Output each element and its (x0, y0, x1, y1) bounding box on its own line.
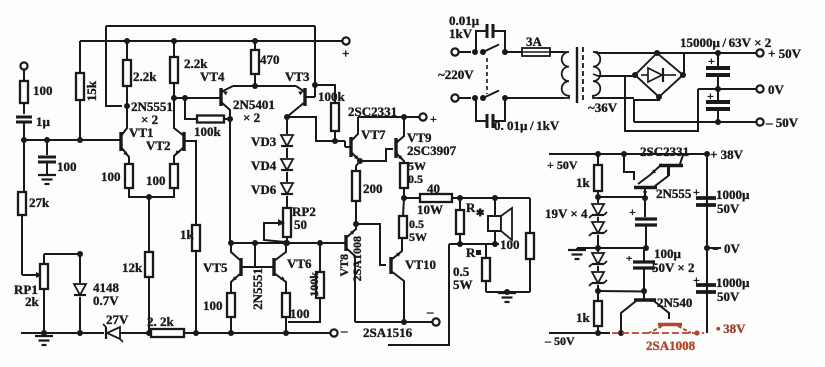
svg-text:✱: ✱ (476, 208, 485, 219)
capacitor 100 (input shunt) (38, 140, 77, 174)
svg-text:100k: 100k (318, 89, 346, 104)
svg-text:2SA1008: 2SA1008 (646, 338, 696, 353)
svg-text:5W: 5W (453, 277, 473, 292)
label +50V (regulator) (547, 158, 578, 172)
zener Z1 (589, 197, 607, 221)
wire zobel bottom (486, 291, 530, 293)
node dot (715, 86, 721, 92)
wire 0V stub (707, 241, 741, 256)
ground (input filter) (38, 175, 56, 184)
zener Z3 (589, 248, 607, 271)
transformer core (577, 47, 583, 103)
diode VD3 (251, 117, 293, 149)
wire regulator + rail (549, 153, 707, 155)
ground (RP1) (35, 336, 53, 345)
node dot VT1 collector (124, 103, 130, 109)
wire VT3 base to outer rail (312, 82, 318, 97)
transistor VT7 (345, 117, 386, 161)
node dot (492, 241, 498, 247)
label 2N5551 (VT5 VT6) (250, 268, 265, 310)
transistor VT10 (391, 238, 436, 322)
resistor 200 (352, 161, 383, 224)
node dot RP1 bottom rail (41, 330, 47, 336)
svg-text:2.2k: 2.2k (133, 69, 157, 84)
svg-text:2. 2k: 2. 2k (147, 314, 175, 329)
wire chain top link (287, 117, 345, 141)
svg-text:100: 100 (290, 306, 310, 321)
svg-text:+ 50V: + 50V (768, 46, 802, 61)
svg-text:1000μ: 1000μ (716, 187, 750, 202)
wire output V+ bus (358, 116, 420, 118)
node dot (642, 195, 648, 201)
resistor 0.5 5W (VT9 emitter) (400, 159, 426, 198)
wire (550, 51, 564, 53)
svg-text:VT8: VT8 (337, 254, 351, 277)
svg-text:+: + (430, 112, 437, 126)
wire bias bus (230, 242, 340, 244)
svg-text:2N540: 2N540 (657, 295, 692, 310)
mains terminal upper (451, 48, 471, 55)
svg-text:100: 100 (33, 83, 53, 98)
wire VT7 base (344, 141, 346, 147)
transistor VT2 (146, 98, 197, 164)
svg-text:× 2: × 2 (243, 110, 260, 125)
node dot (715, 50, 721, 56)
node dot 100k bottom (332, 138, 338, 144)
wire rail V- supply (21, 332, 104, 334)
svg-text:15000μ / 63V × 2: 15000μ / 63V × 2 (680, 35, 771, 50)
label 2SC2331 (pass) (640, 144, 689, 159)
diode 4148 0.7V (74, 254, 120, 336)
bridge rectifier D (632, 50, 686, 100)
svg-text:VT3: VT3 (285, 69, 310, 84)
node dot VT8 emitter (353, 221, 359, 227)
svg-text:50: 50 (294, 217, 307, 232)
wire RP2 wiper (264, 219, 285, 242)
svg-text:100μ: 100μ (654, 246, 682, 261)
capacitor 15000u (upper) (706, 53, 730, 89)
svg-text:2k: 2k (25, 294, 40, 309)
svg-text:100: 100 (57, 159, 77, 174)
wire to RP1 wiper (22, 272, 42, 278)
label 2SA1516 (VT10) (363, 325, 413, 340)
node A dot (21, 137, 27, 143)
node dot diode chain top (284, 114, 290, 120)
svg-text:–: – (340, 323, 348, 338)
transistor VT9 (396, 118, 457, 163)
node dot output node (401, 195, 407, 201)
svg-text:VT6: VT6 (287, 256, 312, 271)
node dot (704, 245, 710, 251)
svg-text:5W: 5W (409, 230, 427, 244)
node dot (252, 240, 258, 246)
svg-text:VD3: VD3 (251, 134, 277, 149)
diode VD6 (251, 172, 293, 197)
diode VD4 (251, 148, 293, 173)
resistor 100k (feedback) (185, 98, 230, 139)
svg-text:– 50V: – 50V (544, 334, 575, 348)
label 2N5551 x2 (131, 99, 173, 127)
input terminal J1 (20, 62, 27, 81)
capacitor C1 1u (16, 114, 51, 140)
node dot (457, 195, 463, 201)
svg-text:0.5: 0.5 (408, 172, 423, 186)
node dot zener top (595, 194, 601, 200)
svg-text:– 50V: – 50V (765, 115, 799, 130)
svg-text:470: 470 (260, 52, 280, 67)
resistor 100 (VT6 emitter) (282, 293, 310, 336)
resistor 27k (18, 140, 50, 275)
resistor 1k (lower) (576, 291, 602, 336)
wire top rail inner V+ (80, 40, 343, 42)
switch S1a (472, 45, 508, 56)
svg-text:2SA1516: 2SA1516 (363, 325, 413, 340)
resistor 100 (input series) (20, 81, 53, 103)
switch S1b (472, 91, 508, 102)
svg-text:2N555: 2N555 (656, 186, 692, 201)
wire secondary tap (598, 75, 633, 77)
wire secondary bottom (598, 97, 634, 99)
wire top rail outer (106, 25, 315, 27)
node dot (317, 240, 323, 246)
wire emitter bus (233, 85, 296, 87)
resistor 100 (VT2 emitter) (146, 164, 178, 197)
resistor 100k (VAS) (318, 89, 346, 141)
transistor VT4 (200, 69, 233, 119)
svg-text:2SC3907: 2SC3907 (407, 143, 457, 158)
node dot (283, 240, 289, 246)
wire (449, 243, 499, 245)
resistor 100k (VT6 collector) (288, 243, 324, 322)
potentiometer RP2 50 (283, 196, 316, 243)
svg-text:VD4: VD4 (251, 158, 277, 173)
wire input node (24, 139, 121, 141)
node dot (44, 137, 50, 143)
resistor 1k (upper) (576, 154, 602, 197)
node dot VT4 collector (227, 116, 233, 122)
svg-text:+ 50V: + 50V (547, 158, 578, 172)
svg-text:27k: 27k (29, 195, 50, 210)
svg-text:200: 200 (363, 181, 383, 196)
wire (23, 103, 25, 114)
node dot zener mid (595, 245, 601, 251)
svg-text:0.5: 0.5 (409, 217, 424, 231)
wire rail to neg terminal (184, 332, 330, 334)
svg-text:100k: 100k (194, 124, 222, 139)
capacitor 100u lower (626, 248, 655, 294)
node dot (595, 151, 601, 157)
label 2SC2331 (VT7) (348, 104, 397, 119)
svg-text:1k: 1k (576, 310, 591, 325)
negative terminal (330, 323, 348, 338)
wire (120, 332, 150, 334)
svg-text:27V: 27V (106, 312, 129, 327)
transistor 2N540 (618, 292, 692, 336)
svg-text:–: – (712, 244, 719, 255)
node dot (704, 151, 710, 157)
capacitor 15000u (lower) (706, 89, 730, 122)
wire outer rail right drop (314, 26, 316, 85)
node dot (401, 319, 407, 325)
output stage positive terminal (419, 112, 437, 126)
wire cap mid link (598, 247, 646, 249)
svg-text:1000μ: 1000μ (716, 275, 750, 290)
resistor 470 (251, 38, 280, 86)
label 100u 50Vx2 (652, 246, 695, 275)
label 2SA1008 (VT8) (350, 236, 364, 281)
resistor 2.2k (VT1 load) (123, 38, 157, 106)
wire VT2 collector to VT4 base (174, 97, 221, 99)
svg-text:R: R (466, 245, 476, 260)
svg-text:+ 38V: + 38V (710, 147, 744, 162)
node dot zener bottom (595, 288, 601, 294)
wire regulator - rail (549, 332, 610, 334)
fuse 3A (522, 34, 550, 56)
svg-text:~36V: ~36V (588, 100, 618, 115)
wire RP1 top to bias node (44, 251, 83, 257)
svg-text:+: + (626, 253, 632, 265)
node dot (228, 240, 234, 246)
wire emitter ref (598, 196, 643, 198)
svg-text:~220V: ~220V (438, 67, 474, 82)
capacitor 0.01u 1kV (lower) (476, 98, 560, 133)
label -50V (regulator) (544, 334, 575, 348)
svg-text:50V: 50V (717, 289, 740, 304)
svg-text:0. 01μ / 1kV: 0. 01μ / 1kV (494, 118, 560, 133)
transistor VT8 (337, 224, 356, 322)
transistor VT3 (285, 69, 315, 116)
wire VT9 base link (360, 149, 393, 161)
potentiometer RP1 2k (14, 254, 48, 333)
terminal 0V (756, 82, 784, 97)
resistor 100 (zobel) (500, 233, 534, 292)
resistor 100 (VT1 emitter) (101, 164, 147, 197)
node dot (457, 241, 463, 247)
node dot (77, 137, 83, 143)
svg-text:VT7: VT7 (361, 127, 386, 142)
wire speaker feed (529, 198, 531, 233)
zener Z4 (589, 272, 607, 291)
wire to 100k top (315, 85, 335, 103)
svg-text:50V × 2: 50V × 2 (652, 260, 695, 275)
svg-text:100k: 100k (307, 272, 321, 297)
wire ground tap (577, 247, 598, 249)
resistor 12k (tail) (122, 197, 153, 336)
svg-text:• 38V: • 38V (716, 321, 746, 336)
switch link dashed (486, 58, 488, 94)
svg-text:1μ: 1μ (36, 114, 51, 129)
red dashed rail -38V (612, 330, 704, 335)
wire bridge right to +rail (683, 53, 685, 75)
node dot (621, 151, 627, 157)
svg-text:0V: 0V (724, 241, 741, 256)
red transistor 2SA1008 (dashed) (649, 325, 691, 334)
label ~36V (588, 100, 618, 115)
node dot VT7 emitter (357, 158, 363, 164)
wire 2N540 base ref (598, 290, 644, 293)
terminal -50V (756, 115, 798, 130)
svg-text:+: + (693, 273, 700, 287)
wire regulator output rail (706, 154, 708, 333)
svg-text:+: + (342, 46, 349, 61)
transistor VT1 (121, 106, 154, 164)
resistor 1k (feedback shunt) (180, 225, 200, 336)
node dot (401, 114, 407, 120)
svg-text:10W: 10W (417, 202, 443, 217)
svg-text:1k: 1k (180, 227, 195, 242)
wire VT2 base line (184, 141, 196, 225)
transistor 2N555 (634, 167, 692, 201)
label ~220V (438, 67, 474, 82)
zener Z2 (589, 222, 607, 248)
wire primary bottom (505, 97, 564, 99)
svg-text:+: + (708, 54, 715, 68)
node dot (492, 195, 498, 201)
svg-text:3A: 3A (526, 34, 543, 49)
svg-text:VT2: VT2 (146, 138, 171, 153)
capacitor 0.01u 1kV (upper) (449, 13, 505, 52)
svg-text:2N5551: 2N5551 (250, 268, 265, 310)
mains terminal lower (451, 94, 471, 101)
resistor 0.5 5W (VT10 emitter) (399, 198, 427, 244)
wire 0V route (625, 76, 698, 131)
svg-text:100: 100 (101, 169, 121, 184)
svg-text:VT10: VT10 (405, 257, 436, 272)
svg-text:R: R (466, 200, 476, 215)
terminal +50V (756, 46, 801, 61)
svg-text:15k: 15k (84, 80, 99, 101)
svg-text:12k: 12k (122, 260, 143, 275)
node dot RP2 bottom (284, 240, 290, 246)
negative supply terminal (output) (426, 304, 440, 326)
transformer T1 primary (562, 52, 569, 98)
speaker LS (488, 198, 512, 244)
resistor 15k (76, 41, 99, 140)
node dot VT4 VT3 emitters (252, 83, 258, 89)
wire negative bus (355, 321, 432, 323)
svg-text:40: 40 (427, 181, 440, 196)
resistor 40 10W (404, 181, 530, 217)
svg-text:2SA1008: 2SA1008 (350, 236, 364, 281)
capacitor 100u upper (629, 198, 657, 251)
svg-text:50V: 50V (717, 201, 740, 216)
wire +50V rail (598, 52, 757, 54)
wire bridge bottom to -rail (634, 97, 659, 122)
resistor 2.2k (rail series) (147, 314, 184, 337)
capacitor 1000u upper (693, 185, 750, 216)
wire VT5 VT6 base link (254, 243, 256, 267)
svg-text:VD6: VD6 (251, 182, 277, 197)
label 19V x 4 (545, 206, 588, 221)
svg-text:5W: 5W (408, 159, 426, 173)
node dot (715, 119, 721, 125)
ground (speaker) (498, 289, 516, 302)
label -38V (red) (716, 321, 746, 336)
label 15000u/63Vx2 (680, 35, 771, 50)
svg-text:19V × 4: 19V × 4 (545, 206, 588, 221)
svg-text:–: – (426, 304, 434, 319)
label 2N5401 x2 (233, 97, 275, 125)
svg-text:100: 100 (203, 298, 223, 313)
wire 0V rail (698, 88, 757, 90)
wire VAS link (229, 119, 231, 243)
wire (505, 51, 522, 53)
resistor RL 0.5 5W (453, 244, 490, 292)
node dot emitter junction (146, 194, 152, 200)
svg-text:+: + (707, 89, 714, 103)
svg-text:VT5: VT5 (203, 260, 228, 275)
transistor VT5 (203, 243, 255, 293)
wire VT10 base link (356, 224, 386, 265)
positive supply terminal (342, 37, 350, 61)
label +38V (710, 147, 744, 162)
resistor R* (parallel) (456, 198, 485, 244)
svg-text:0.7V: 0.7V (93, 293, 119, 308)
node dot feedback tap (182, 95, 188, 101)
transformer T1 secondary (593, 52, 600, 98)
wire outer rail left drop (106, 26, 122, 106)
svg-text:1kV: 1kV (449, 26, 473, 41)
wire base ref (624, 154, 634, 180)
capacitor 1000u lower (693, 273, 750, 304)
zener diode 27V (103, 312, 129, 342)
svg-text:+: + (629, 205, 636, 219)
svg-text:0V: 0V (768, 82, 785, 97)
resistor 100 (VT5 emitter) (203, 293, 235, 336)
node dot VT2 collector (171, 95, 177, 101)
label 2SA1008 (red) (646, 338, 696, 353)
wire feedback return (388, 244, 449, 345)
svg-text:1k: 1k (576, 175, 591, 190)
svg-text:+: + (693, 185, 700, 199)
wire -50V rail (634, 121, 757, 123)
transistor VT6 (255, 243, 312, 293)
svg-text:100: 100 (146, 173, 166, 188)
resistor 2.2k (VT2 load) (170, 38, 208, 98)
transistor 2SC2331 (638, 155, 683, 184)
svg-text:VT4: VT4 (200, 69, 225, 84)
svg-text:100: 100 (500, 237, 520, 252)
ground (zener mid) (568, 248, 586, 259)
